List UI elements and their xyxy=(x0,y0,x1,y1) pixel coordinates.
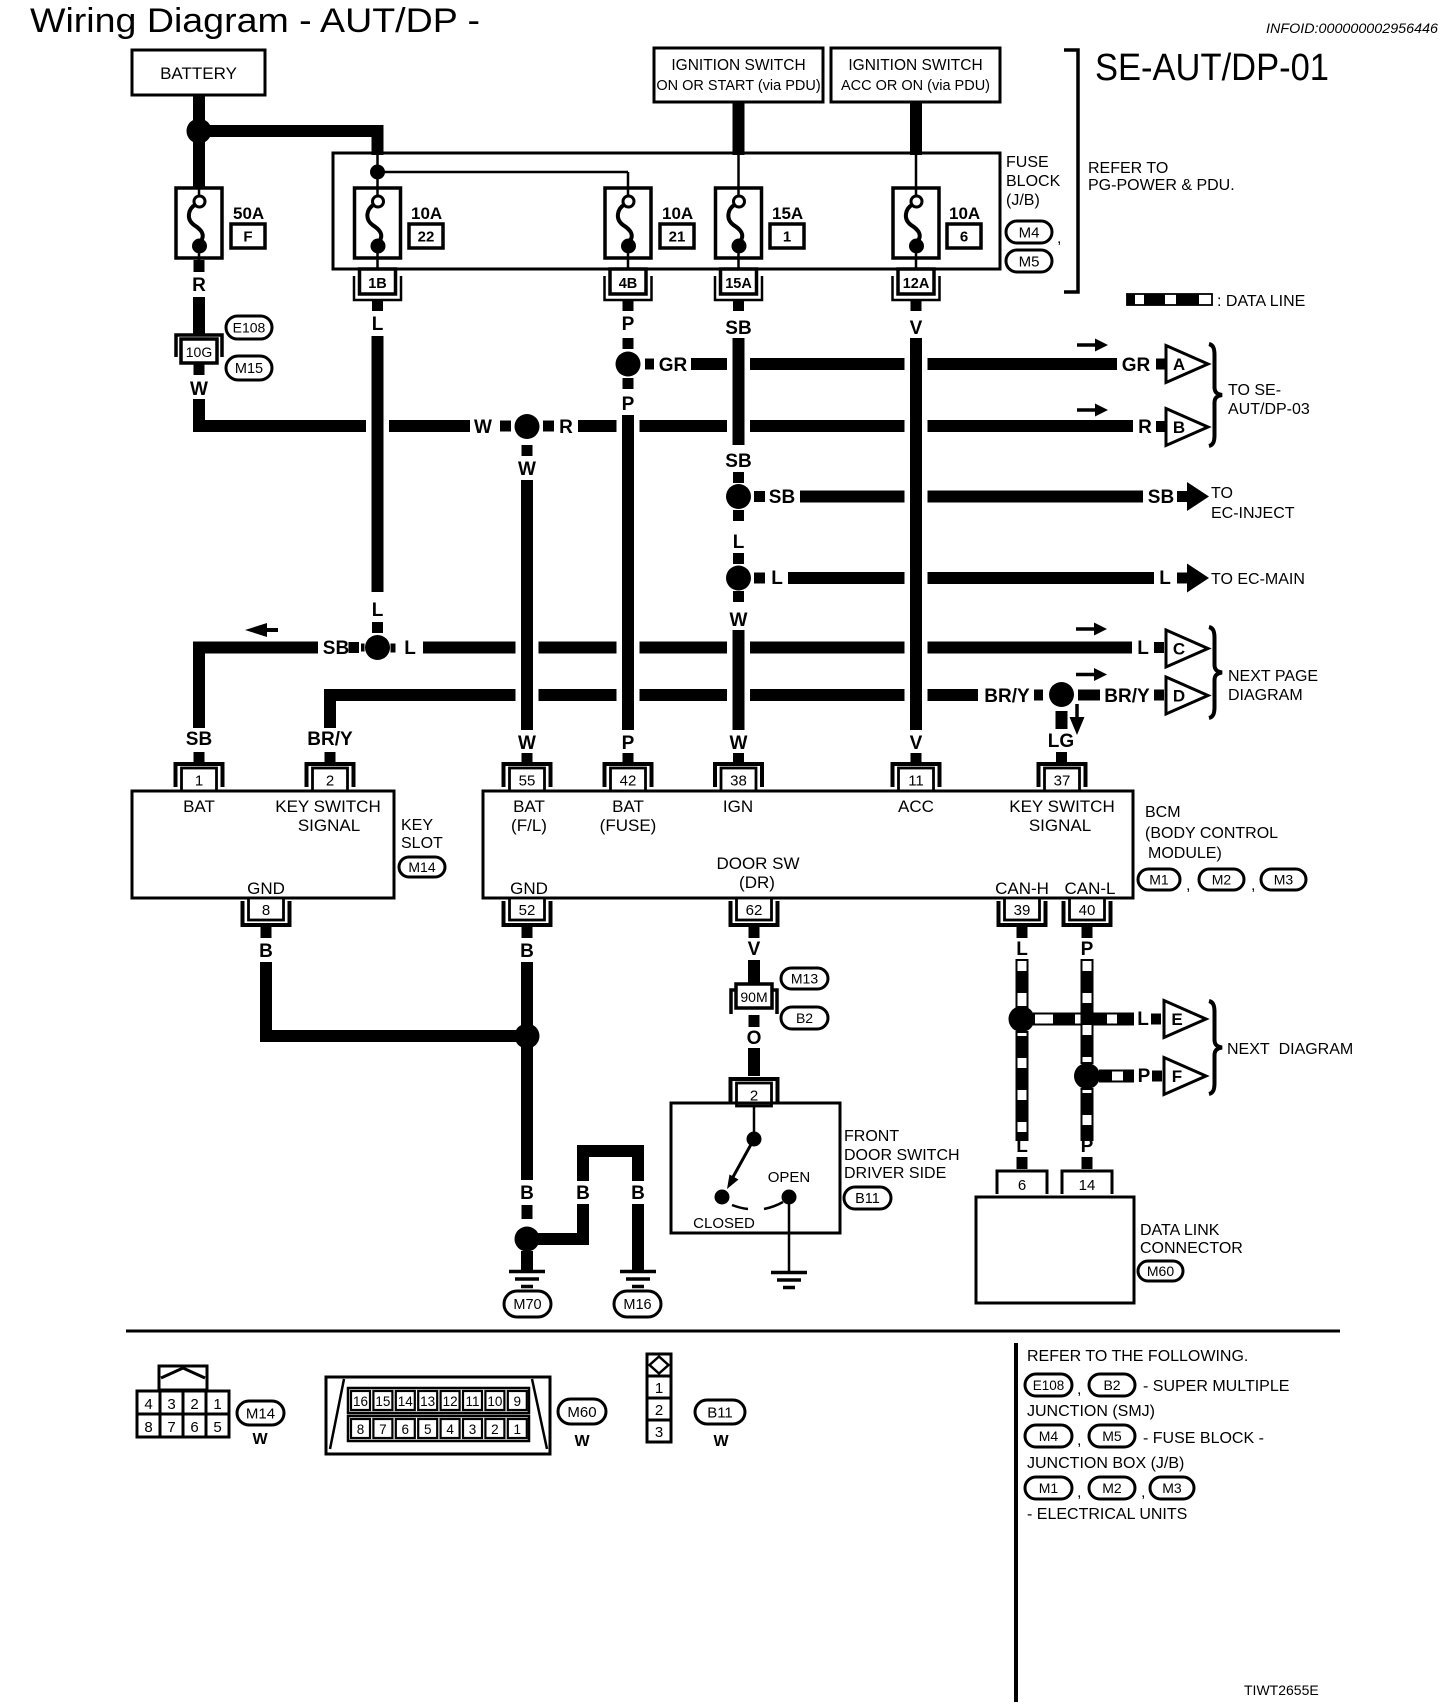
connector view M60 xyxy=(326,1377,550,1454)
svg-text:SB: SB xyxy=(725,318,751,339)
svg-text:DOOR SWITCH: DOOR SWITCH xyxy=(844,1147,960,1164)
splice dot W-R xyxy=(515,414,540,439)
svg-text:B: B xyxy=(520,941,534,962)
svg-text:W: W xyxy=(713,1433,729,1450)
svg-text:BAT: BAT xyxy=(612,797,644,816)
separator line xyxy=(126,1330,1340,1333)
svg-text:F: F xyxy=(243,229,252,246)
svg-text:GR: GR xyxy=(659,355,688,376)
connector 15A xyxy=(715,276,762,300)
splice dot ground bus xyxy=(515,1024,540,1049)
svg-text:P: P xyxy=(622,314,635,335)
row E data line to triangle E xyxy=(1034,1014,1133,1025)
BCM pin 42 xyxy=(605,764,652,787)
svg-text:DATA LINK: DATA LINK xyxy=(1140,1222,1220,1239)
svg-text:,: , xyxy=(1077,1381,1081,1398)
ground M16 xyxy=(620,1270,656,1274)
svg-text:,: , xyxy=(1141,1484,1145,1501)
svg-text:KEY: KEY xyxy=(401,817,433,834)
wire 10G down, label W xyxy=(194,363,205,375)
svg-text:L: L xyxy=(733,532,745,553)
svg-text:6: 6 xyxy=(960,229,968,246)
svg-text:TIWT2655E: TIWT2655E xyxy=(1244,1682,1319,1698)
key slot pin 2 xyxy=(307,764,354,787)
svg-text:L: L xyxy=(1159,568,1171,589)
svg-text:10A: 10A xyxy=(411,204,442,223)
svg-text:Wiring Diagram - AUT/DP -: Wiring Diagram - AUT/DP - xyxy=(30,2,480,40)
svg-text:1: 1 xyxy=(783,229,791,246)
svg-text:- SUPER MULTIPLE: - SUPER MULTIPLE xyxy=(1143,1378,1289,1395)
svg-text:M14: M14 xyxy=(408,859,435,875)
svg-text:B2: B2 xyxy=(796,1010,813,1026)
svg-text:REFER TO THE FOLLOWING.: REFER TO THE FOLLOWING. xyxy=(1027,1348,1248,1365)
wire 90M down, label O xyxy=(749,1015,760,1027)
svg-text:D: D xyxy=(1173,687,1185,706)
svg-text:BAT: BAT xyxy=(513,797,545,816)
svg-text:(F/L): (F/L) xyxy=(511,816,547,835)
svg-text:SB: SB xyxy=(323,638,349,659)
row R wire to triangle B xyxy=(578,420,617,432)
svg-text:TO EC-MAIN: TO EC-MAIN xyxy=(1211,571,1305,588)
svg-text:V: V xyxy=(748,939,761,960)
svg-text:12A: 12A xyxy=(903,276,930,292)
svg-text:M2: M2 xyxy=(1212,872,1232,888)
svg-text:KEY SWITCH: KEY SWITCH xyxy=(275,797,380,816)
svg-text:TO: TO xyxy=(1211,485,1233,502)
svg-text:B2: B2 xyxy=(1103,1377,1120,1393)
BCM pin 40 CAN-L xyxy=(1064,901,1111,925)
svg-text:BATTERY: BATTERY xyxy=(160,64,237,83)
svg-text:W: W xyxy=(730,610,748,631)
svg-text:B11: B11 xyxy=(707,1404,733,1421)
svg-text:GND: GND xyxy=(510,879,548,898)
connector M60 view oval xyxy=(558,1399,606,1424)
svg-text:1: 1 xyxy=(195,773,203,790)
svg-text:1: 1 xyxy=(514,1422,522,1437)
data line legend xyxy=(1127,294,1212,305)
svg-text:LG: LG xyxy=(1048,731,1074,752)
splice dot BR/Y row D xyxy=(1049,682,1074,707)
svg-text:M13: M13 xyxy=(791,971,818,987)
fuse 21 10A xyxy=(605,188,651,258)
svg-text:,: , xyxy=(1057,230,1061,247)
M4 M5 fuse block note xyxy=(1025,1425,1072,1447)
svg-text:NEXT PAGE: NEXT PAGE xyxy=(1228,668,1318,685)
arrow above row D xyxy=(1076,673,1097,677)
connector M3 oval xyxy=(1261,869,1306,890)
BCM pin 52 GND xyxy=(504,901,551,925)
svg-text:EC-INJECT: EC-INJECT xyxy=(1211,505,1295,522)
connector B11 view oval xyxy=(695,1400,745,1424)
svg-text:GND: GND xyxy=(247,879,285,898)
triangle F xyxy=(1164,1058,1206,1095)
svg-text:L: L xyxy=(1016,1136,1028,1157)
svg-text:JUNCTION BOX (J/B): JUNCTION BOX (J/B) xyxy=(1027,1455,1184,1472)
LG stub below row D xyxy=(1056,711,1068,729)
svg-text:P: P xyxy=(622,394,635,415)
svg-text:55: 55 xyxy=(519,773,536,790)
svg-text:14: 14 xyxy=(1079,1177,1096,1194)
svg-text:SLOT: SLOT xyxy=(401,835,443,852)
BCM box xyxy=(483,791,1133,898)
svg-text:NEXT DIAGRAM: NEXT DIAGRAM xyxy=(1227,1041,1353,1058)
svg-text:KEY SWITCH: KEY SWITCH xyxy=(1009,797,1114,816)
brace to SE-AUT/DP-03 xyxy=(1209,344,1222,446)
svg-text:(J/B): (J/B) xyxy=(1006,192,1040,209)
svg-text:4B: 4B xyxy=(619,276,638,292)
svg-text:B: B xyxy=(520,1183,534,1204)
svg-text:15: 15 xyxy=(375,1394,390,1409)
svg-text:L: L xyxy=(1137,1009,1149,1030)
svg-text:7: 7 xyxy=(379,1422,387,1437)
splice dot L row xyxy=(726,566,751,591)
svg-text:OPEN: OPEN xyxy=(768,1169,811,1186)
svg-text:BR/Y: BR/Y xyxy=(307,729,353,750)
svg-text:AUT/DP-03: AUT/DP-03 xyxy=(1228,401,1310,418)
svg-text:10A: 10A xyxy=(662,204,693,223)
connector M1 oval xyxy=(1138,869,1180,890)
svg-text:3: 3 xyxy=(655,1424,663,1441)
triangle A xyxy=(1166,346,1208,383)
svg-text:SIGNAL: SIGNAL xyxy=(298,816,360,835)
svg-text:M16: M16 xyxy=(623,1297,651,1313)
svg-text:L: L xyxy=(771,568,783,589)
connector M4 oval xyxy=(1006,221,1052,243)
svg-text:,: , xyxy=(1251,877,1255,894)
connector 1B xyxy=(354,276,401,300)
svg-text:L: L xyxy=(1016,939,1028,960)
brace next diagram xyxy=(1209,1001,1222,1094)
connector M2 oval xyxy=(1199,869,1244,890)
svg-text:BCM: BCM xyxy=(1145,804,1181,821)
BCM pin 62 DOOR SW xyxy=(731,901,778,925)
svg-text:10A: 10A xyxy=(949,204,980,223)
fuse 1 15A xyxy=(716,188,762,258)
svg-text:BLOCK: BLOCK xyxy=(1006,173,1061,190)
svg-text:M60: M60 xyxy=(1147,1263,1174,1279)
svg-text:BR/Y: BR/Y xyxy=(1104,686,1150,707)
splice dot SB row xyxy=(726,484,751,509)
connector 12A xyxy=(893,276,940,300)
svg-text:10: 10 xyxy=(487,1394,502,1409)
svg-text:3: 3 xyxy=(167,1396,175,1413)
row F data line to triangle F xyxy=(1100,1071,1133,1082)
junction dot inside fuse block xyxy=(370,165,385,180)
DLC pin 14 xyxy=(1062,1171,1112,1194)
wire battery to junction xyxy=(193,95,205,188)
svg-text:DRIVER SIDE: DRIVER SIDE xyxy=(844,1165,946,1182)
svg-text:: DATA LINE: : DATA LINE xyxy=(1217,293,1305,310)
data link connector box xyxy=(976,1197,1134,1303)
svg-text:8: 8 xyxy=(262,902,270,919)
svg-text:ACC OR ON (via PDU): ACC OR ON (via PDU) xyxy=(841,78,990,94)
svg-text:62: 62 xyxy=(746,902,763,919)
fuse F 50A xyxy=(176,188,222,258)
ignition switch acc/on box xyxy=(831,48,1000,102)
svg-text:PG-POWER & PDU.: PG-POWER & PDU. xyxy=(1088,177,1235,194)
svg-text:P: P xyxy=(1081,1136,1094,1157)
svg-text:W: W xyxy=(574,1433,590,1450)
svg-text:2: 2 xyxy=(326,773,334,790)
svg-text:15A: 15A xyxy=(725,276,752,292)
svg-text:5: 5 xyxy=(424,1422,432,1437)
door switch pin 2 xyxy=(731,1079,778,1102)
svg-text:52: 52 xyxy=(519,902,536,919)
svg-text:E108: E108 xyxy=(233,320,266,336)
refer bracket xyxy=(1064,50,1078,292)
svg-text:REFER TO: REFER TO xyxy=(1088,160,1168,177)
svg-text:M5: M5 xyxy=(1019,253,1040,270)
svg-text:13: 13 xyxy=(420,1394,435,1409)
connector M60 oval xyxy=(1138,1261,1183,1281)
connector B11 oval xyxy=(844,1187,891,1209)
svg-text:2: 2 xyxy=(491,1422,499,1437)
wire W from splice down to BCM 55 xyxy=(522,445,533,456)
svg-text:7: 7 xyxy=(167,1419,175,1436)
svg-text:40: 40 xyxy=(1079,902,1096,919)
svg-text:B: B xyxy=(1173,418,1185,437)
wire ignition on/start to fuse block xyxy=(733,102,745,155)
svg-text:2: 2 xyxy=(190,1396,198,1413)
arrow above row R xyxy=(1077,408,1098,412)
svg-text:P: P xyxy=(1138,1066,1151,1087)
fuse block J/B box xyxy=(333,153,1000,269)
svg-text:FUSE: FUSE xyxy=(1006,154,1049,171)
svg-text:SB: SB xyxy=(1148,487,1174,508)
BCM pin 55 xyxy=(504,764,551,787)
svg-text:8: 8 xyxy=(357,1422,365,1437)
svg-text:M1: M1 xyxy=(1149,872,1169,888)
svg-text:CONNECTOR: CONNECTOR xyxy=(1140,1240,1243,1257)
splice dot CAN-L xyxy=(1074,1063,1100,1089)
svg-text:DOOR SW: DOOR SW xyxy=(716,854,799,873)
svg-text:CAN-L: CAN-L xyxy=(1064,879,1115,898)
fuse 6 10A xyxy=(893,188,939,258)
connector 4B xyxy=(605,276,652,300)
svg-text:L: L xyxy=(1137,638,1149,659)
svg-text:37: 37 xyxy=(1054,773,1071,790)
ground door switch xyxy=(771,1271,807,1275)
svg-text:W: W xyxy=(730,733,748,754)
BCM pin 39 CAN-H xyxy=(999,901,1046,925)
svg-text:50A: 50A xyxy=(233,204,264,223)
svg-text:- FUSE BLOCK -: - FUSE BLOCK - xyxy=(1143,1430,1264,1447)
fuse block internal feed wires xyxy=(376,155,379,196)
connector M13 oval xyxy=(781,968,828,989)
door switch ground wire xyxy=(788,1204,791,1271)
key slot box xyxy=(132,791,394,898)
SMJ 10G xyxy=(176,335,222,357)
connector view B11 xyxy=(647,1354,671,1376)
svg-text:M14: M14 xyxy=(246,1405,275,1422)
row GR wire xyxy=(645,359,654,370)
svg-text:A: A xyxy=(1173,355,1185,374)
svg-text:2: 2 xyxy=(655,1402,663,1419)
svg-text:INFOID:000000002956446: INFOID:000000002956446 xyxy=(1266,21,1439,36)
svg-text:MODULE): MODULE) xyxy=(1148,845,1222,862)
svg-text:M2: M2 xyxy=(1102,1480,1122,1496)
svg-text:11: 11 xyxy=(908,773,924,790)
svg-text:M60: M60 xyxy=(567,1404,596,1421)
BCM pin 11 xyxy=(893,764,940,787)
arrow above row GR xyxy=(1077,343,1098,347)
CAN-L vertical data line xyxy=(1082,960,1093,1063)
svg-text:6: 6 xyxy=(190,1419,198,1436)
svg-text:DIAGRAM: DIAGRAM xyxy=(1228,687,1303,704)
splice dot CAN-H xyxy=(1009,1006,1035,1032)
svg-text:F: F xyxy=(1172,1067,1182,1086)
vertical divider xyxy=(1014,1343,1018,1702)
triangle C xyxy=(1166,630,1208,667)
svg-text:O: O xyxy=(747,1028,762,1049)
svg-text:IGNITION SWITCH: IGNITION SWITCH xyxy=(848,57,982,74)
svg-text:42: 42 xyxy=(620,773,637,790)
svg-text:SIGNAL: SIGNAL xyxy=(1029,816,1091,835)
svg-text:(DR): (DR) xyxy=(739,873,775,892)
arrow above row C right xyxy=(1076,627,1097,631)
svg-text:,: , xyxy=(1077,1484,1081,1501)
connector E108 oval xyxy=(226,316,272,339)
svg-text:22: 22 xyxy=(418,229,435,246)
connector M5 oval xyxy=(1006,250,1052,272)
svg-text:M3: M3 xyxy=(1274,872,1294,888)
wire battery junction to fuse block xyxy=(199,131,378,155)
splice dot GR on P wire xyxy=(616,352,641,377)
svg-text:R: R xyxy=(192,275,206,296)
row SB wire to EC-INJECT xyxy=(754,491,765,502)
row C wire right part xyxy=(423,642,516,654)
connector M14 view oval xyxy=(237,1401,284,1425)
svg-text:JUNCTION (SMJ): JUNCTION (SMJ) xyxy=(1027,1403,1155,1420)
ground jumper wire xyxy=(533,1204,583,1239)
svg-text:C: C xyxy=(1173,640,1185,659)
svg-text:R: R xyxy=(559,417,573,438)
svg-text:SE-AUT/DP-01: SE-AUT/DP-01 xyxy=(1095,47,1329,89)
svg-text:M70: M70 xyxy=(513,1297,541,1313)
svg-text:IGNITION SWITCH: IGNITION SWITCH xyxy=(671,57,805,74)
SMJ 90M xyxy=(731,990,777,1014)
svg-text:10G: 10G xyxy=(186,344,212,360)
svg-text:1B: 1B xyxy=(368,276,387,292)
brace next page diagram xyxy=(1209,627,1222,718)
svg-text:SB: SB xyxy=(769,487,795,508)
svg-text:FRONT: FRONT xyxy=(844,1128,899,1145)
svg-text:M4: M4 xyxy=(1019,224,1040,241)
svg-text:P: P xyxy=(1081,939,1094,960)
svg-text:39: 39 xyxy=(1014,902,1031,919)
svg-text:90M: 90M xyxy=(740,989,767,1005)
svg-text:21: 21 xyxy=(669,229,686,246)
svg-text:BR/Y: BR/Y xyxy=(984,686,1030,707)
junction dot battery xyxy=(187,119,212,144)
svg-text:M15: M15 xyxy=(235,361,263,377)
ignition switch on/start box xyxy=(654,48,823,102)
svg-text:B: B xyxy=(576,1183,590,1204)
svg-text:M4: M4 xyxy=(1039,1428,1059,1444)
svg-text:W: W xyxy=(190,379,208,400)
row C wire left part xyxy=(199,648,318,729)
svg-text:1: 1 xyxy=(655,1380,663,1397)
wire row D to key slot pin 2 xyxy=(324,700,336,728)
battery box xyxy=(132,50,265,95)
svg-text:V: V xyxy=(910,318,923,339)
arrow left above row C xyxy=(261,628,278,632)
M1 M2 M3 electrical units note xyxy=(1025,1477,1072,1499)
svg-text:R: R xyxy=(1138,417,1152,438)
svg-text:,: , xyxy=(1186,877,1190,894)
svg-text:6: 6 xyxy=(402,1422,410,1437)
svg-text:TO SE-: TO SE- xyxy=(1228,382,1281,399)
splice dot ground lower xyxy=(515,1227,540,1252)
svg-text:CAN-H: CAN-H xyxy=(995,879,1049,898)
wire fuse F to 10G, label R xyxy=(194,260,205,272)
svg-text:B: B xyxy=(259,941,273,962)
svg-text:1: 1 xyxy=(213,1396,221,1413)
svg-text:(FUSE): (FUSE) xyxy=(600,816,657,835)
svg-text:16: 16 xyxy=(353,1394,368,1409)
svg-text:BAT: BAT xyxy=(183,797,215,816)
connector M14 oval xyxy=(399,857,445,877)
svg-text:W: W xyxy=(518,459,536,480)
triangle D xyxy=(1166,677,1208,714)
svg-text:B11: B11 xyxy=(855,1191,880,1207)
svg-text:V: V xyxy=(910,733,923,754)
svg-text:L: L xyxy=(372,314,384,335)
splice dot SB-L row C xyxy=(365,635,390,660)
svg-text:SB: SB xyxy=(186,729,212,750)
svg-text:9: 9 xyxy=(514,1394,522,1409)
triangle B xyxy=(1166,409,1208,446)
svg-text:GR: GR xyxy=(1122,355,1151,376)
E108 B2 SMJ note xyxy=(1025,1374,1072,1396)
svg-text:SB: SB xyxy=(725,451,751,472)
svg-text:4: 4 xyxy=(446,1422,454,1437)
key slot pin 8 GND xyxy=(243,901,290,925)
BCM pin 38 xyxy=(715,764,762,787)
svg-text:38: 38 xyxy=(730,773,747,790)
door switch internals xyxy=(753,1106,756,1133)
svg-text:(BODY CONTROL: (BODY CONTROL xyxy=(1145,825,1278,842)
key slot pin 1 xyxy=(176,764,223,787)
row D wire BR/Y xyxy=(330,695,516,701)
svg-text:5: 5 xyxy=(213,1419,221,1436)
svg-text:CLOSED: CLOSED xyxy=(693,1215,755,1232)
svg-text:15A: 15A xyxy=(772,204,803,223)
ground M70 xyxy=(509,1270,545,1274)
row L wire to EC-MAIN xyxy=(754,573,765,584)
connector view M14 xyxy=(159,1366,207,1390)
front door switch box xyxy=(671,1103,840,1233)
svg-text:L: L xyxy=(404,638,416,659)
svg-text:12: 12 xyxy=(443,1394,458,1409)
BCM pin 37 xyxy=(1039,764,1086,787)
svg-text:W: W xyxy=(252,1431,268,1448)
svg-text:8: 8 xyxy=(144,1419,152,1436)
svg-text:6: 6 xyxy=(1018,1177,1026,1194)
svg-text:- ELECTRICAL UNITS: - ELECTRICAL UNITS xyxy=(1027,1506,1187,1523)
svg-text:L: L xyxy=(372,600,384,621)
svg-text:11: 11 xyxy=(465,1394,479,1409)
svg-text:4: 4 xyxy=(144,1396,152,1413)
svg-text:B: B xyxy=(631,1183,645,1204)
svg-text:E108: E108 xyxy=(1033,1378,1065,1393)
svg-text:3: 3 xyxy=(469,1422,477,1437)
svg-text:M3: M3 xyxy=(1162,1480,1182,1496)
DLC pin 6 xyxy=(997,1171,1047,1194)
svg-text:W: W xyxy=(518,733,536,754)
svg-text:W: W xyxy=(474,417,492,438)
row W-R wire left xyxy=(199,399,366,426)
